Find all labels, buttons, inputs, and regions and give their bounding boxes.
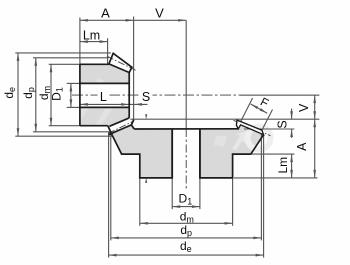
pinion centerline (dash-dot) xyxy=(72,94,240,96)
dimension dm (gear) xyxy=(139,178,141,226)
gear outline right xyxy=(200,129,264,178)
gear root line left (mesh) xyxy=(109,125,135,135)
dimension line L xyxy=(80,103,129,105)
gear body right half (sectioned gray) xyxy=(200,125,264,178)
arrowhead at gear bottom x=146 xyxy=(145,178,147,183)
svg-text:A: A xyxy=(295,142,309,151)
svg-text:L: L xyxy=(100,90,107,104)
dimension V (gear, right) xyxy=(314,95,316,119)
watermark streaks on pinion xyxy=(70,78,128,126)
svg-text:S: S xyxy=(276,120,290,128)
gear left tooth small-end cap xyxy=(131,120,133,125)
dimension de (pinion) xyxy=(17,53,19,136)
pinion back face xyxy=(128,73,130,118)
extension line: Lm right, x=107.6 xyxy=(107,38,109,63)
dimension D1 (pinion bore) xyxy=(70,83,72,107)
gear body left half (sectioned gray) xyxy=(109,125,173,178)
pinion lower tooth root line xyxy=(109,118,129,126)
extension line: pinion mounting plane vertical x=133.6 xyxy=(133,17,135,120)
gear centerline (dash-dot) xyxy=(185,129,187,190)
watermark arrow (light) xyxy=(232,131,247,150)
dimension dp (gear) xyxy=(110,133,112,241)
gear right tooth xyxy=(236,120,263,135)
svg-text:Lm: Lm xyxy=(83,28,100,42)
dimension line Lm (pinion) xyxy=(80,41,108,43)
arrowhead at plane line x=146 xyxy=(145,114,147,119)
gear bottom extension to A dim xyxy=(234,177,318,179)
extension line: plane horizontal y=119.2 xyxy=(130,118,319,120)
pinion lower tooth front edge xyxy=(108,126,113,136)
pinion body (sectioned gray) xyxy=(80,64,130,126)
dimension D1 (gear bore) xyxy=(171,178,173,209)
dimension dp (pinion) xyxy=(35,58,37,132)
pitch line mesh (dash-dot) xyxy=(108,121,133,133)
svg-text:S: S xyxy=(142,90,150,104)
dimension S (gear, right) xyxy=(291,109,293,120)
pinion bore edges xyxy=(80,83,129,107)
pinion centerline extension (solid) xyxy=(240,94,319,96)
dimension dm (pinion) xyxy=(50,64,52,125)
V dim right extension / gear axis upper xyxy=(185,20,187,129)
gear face extension to S dim xyxy=(244,128,294,130)
gear bore edges xyxy=(172,129,200,178)
svg-text:Lm: Lm xyxy=(276,157,290,174)
dimension Lm (gear, right) xyxy=(291,154,293,178)
extension line: pinion front face up to A dim xyxy=(79,18,81,65)
pitch line upper tooth (dash-dot) xyxy=(107,56,136,70)
dimension F (face width, slanted) xyxy=(237,98,253,130)
pinion upper tooth xyxy=(109,53,132,72)
pinion bore white xyxy=(80,83,129,107)
pinion outline xyxy=(80,63,109,65)
dimension line S (pinion) xyxy=(129,103,147,105)
gear outline left xyxy=(112,129,172,178)
svg-text:V: V xyxy=(297,103,311,112)
dimension line A (pinion) xyxy=(80,19,134,21)
svg-text:V: V xyxy=(155,5,164,20)
gear face line xyxy=(134,128,238,130)
svg-text:A: A xyxy=(101,5,110,20)
pitch line right tooth (dash-dot) xyxy=(234,120,271,135)
dimension de (gear) xyxy=(108,132,110,258)
rim bottom extension to Lm dim xyxy=(252,153,294,155)
dimension line V (pinion) xyxy=(134,19,187,21)
dimension A (gear, right) xyxy=(314,119,316,178)
